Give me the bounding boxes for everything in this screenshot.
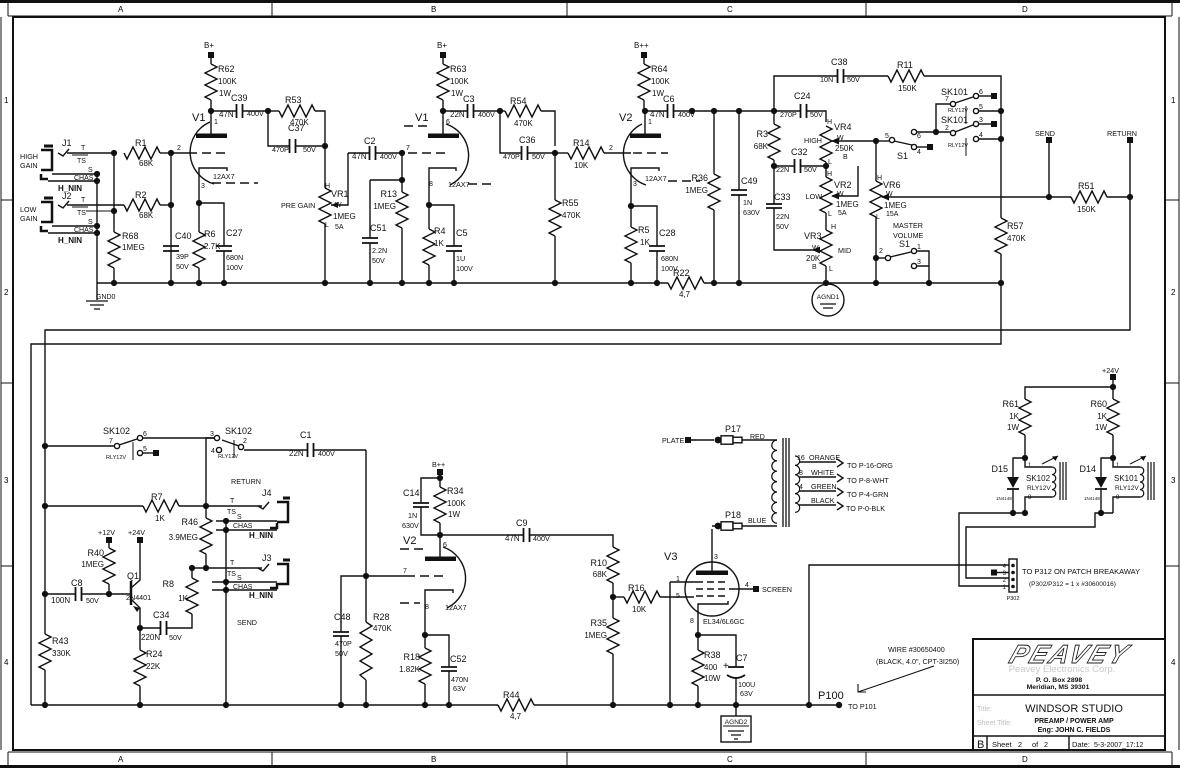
svg-text:68K: 68K <box>139 211 154 220</box>
node R61/D15/coil <box>1022 455 1028 461</box>
svg-text:4,7: 4,7 <box>510 712 522 721</box>
svg-text:50V: 50V <box>372 256 385 265</box>
wire rail x171 <box>170 153 172 283</box>
svg-text:S: S <box>237 575 242 582</box>
node V1a plate junction <box>208 108 214 114</box>
svg-text:+24V: +24V <box>128 528 145 537</box>
resistor R4 <box>423 205 446 283</box>
svg-text:100K: 100K <box>450 77 469 86</box>
node C3/R54 <box>497 108 503 114</box>
svg-text:H: H <box>827 119 832 126</box>
svg-text:100K: 100K <box>651 77 670 86</box>
capacitor C24 <box>774 91 826 122</box>
resistor R36 <box>685 111 720 283</box>
svg-text:GAIN: GAIN <box>20 161 38 170</box>
node R13/C51 <box>399 177 405 183</box>
svg-text:R34: R34 <box>447 486 464 496</box>
svg-text:1N4148: 1N4148 <box>1084 496 1100 501</box>
resistor R51 <box>1049 181 1130 214</box>
svg-text:T: T <box>81 197 86 204</box>
resistor R11 <box>888 60 1001 111</box>
svg-text:1MEG: 1MEG <box>122 243 145 252</box>
svg-text:R13: R13 <box>380 189 397 199</box>
svg-text:TO P101: TO P101 <box>848 702 877 711</box>
svg-text:68K: 68K <box>754 142 769 151</box>
node J2 chassis <box>94 230 100 236</box>
svg-text:47N: 47N <box>650 110 665 119</box>
svg-text:2: 2 <box>879 248 883 255</box>
resistor R13 <box>373 180 408 283</box>
wire C1 to V2b grid <box>365 450 367 576</box>
svg-text:1MEG: 1MEG <box>373 202 396 211</box>
svg-text:1MEG: 1MEG <box>685 186 708 195</box>
svg-text:VR1: VR1 <box>331 189 349 199</box>
svg-text:VR2: VR2 <box>834 180 852 190</box>
svg-text:5A: 5A <box>335 224 344 231</box>
node C39/R53 <box>265 108 271 114</box>
svg-text:50V: 50V <box>176 262 189 271</box>
svg-text:CHAS: CHAS <box>233 523 253 530</box>
svg-text:RLY12V: RLY12V <box>1027 485 1051 492</box>
svg-text:J3: J3 <box>262 553 272 563</box>
svg-text:1W: 1W <box>451 89 463 98</box>
svg-text:400: 400 <box>704 663 718 672</box>
svg-text:L: L <box>876 214 880 221</box>
svg-text:50V: 50V <box>169 633 182 642</box>
svg-text:BLACK: BLACK <box>811 496 835 505</box>
svg-text:1U: 1U <box>456 254 465 263</box>
SEND terminal <box>1035 129 1055 197</box>
svg-text:WHITE: WHITE <box>811 468 834 477</box>
svg-text:4: 4 <box>917 149 921 156</box>
svg-text:470P: 470P <box>335 639 352 648</box>
svg-text:VR4: VR4 <box>834 122 852 132</box>
svg-text:680N: 680N <box>661 254 678 263</box>
P100 terminal <box>818 690 877 711</box>
svg-text:1W: 1W <box>448 510 460 519</box>
wire <box>211 110 236 112</box>
svg-text:3: 3 <box>201 183 205 190</box>
svg-text:C27: C27 <box>226 228 243 238</box>
svg-text:B+: B+ <box>437 41 447 50</box>
svg-text:1MEG: 1MEG <box>81 560 104 569</box>
svg-text:1K: 1K <box>1097 412 1107 421</box>
capacitor C36 <box>500 111 555 161</box>
svg-text:63V: 63V <box>453 684 466 693</box>
resistor R14 <box>555 138 631 170</box>
svg-text:1N4148: 1N4148 <box>996 496 1012 501</box>
wire grid down <box>401 153 403 180</box>
node C49 top <box>736 108 742 114</box>
tap 8 WHITE <box>799 468 889 485</box>
svg-text:J1: J1 <box>62 138 72 148</box>
node J2 sleeve <box>94 223 100 229</box>
resistor R68 <box>108 231 145 283</box>
capacitor C8 <box>45 578 131 605</box>
capacitor C1 <box>244 430 366 458</box>
jack J2 <box>20 191 124 245</box>
svg-text:470P: 470P <box>272 145 289 154</box>
svg-text:Date:: Date: <box>1072 740 1090 749</box>
svg-text:3: 3 <box>4 476 9 485</box>
wire grid <box>366 575 406 577</box>
svg-text:C5: C5 <box>456 228 468 238</box>
svg-text:C1: C1 <box>300 430 312 440</box>
svg-text:+12V: +12V <box>98 528 115 537</box>
resistor R3 <box>754 111 780 166</box>
svg-text:D15: D15 <box>991 464 1008 474</box>
resistor R2 <box>124 190 171 220</box>
node V3 cathode <box>695 632 701 638</box>
svg-text:1K: 1K <box>434 239 444 248</box>
svg-text:22N: 22N <box>776 212 789 221</box>
svg-text:5-3-2007_17:12: 5-3-2007_17:12 <box>1094 742 1144 749</box>
svg-text:50V: 50V <box>303 145 316 154</box>
svg-text:630V: 630V <box>402 521 419 530</box>
resistor R34 <box>434 478 466 535</box>
svg-text:R1: R1 <box>135 138 147 148</box>
svg-text:2: 2 <box>945 125 949 132</box>
svg-text:4: 4 <box>211 448 215 455</box>
border top bar <box>0 2 1180 17</box>
svg-text:R43: R43 <box>52 636 69 646</box>
svg-text:2: 2 <box>1171 288 1176 297</box>
svg-text:400V: 400V <box>318 449 335 458</box>
svg-text:3: 3 <box>979 117 983 124</box>
resistor R60 <box>1090 387 1119 458</box>
+12V supply marker <box>98 528 115 548</box>
svg-text:C48: C48 <box>334 612 351 622</box>
svg-text:63V: 63V <box>740 689 753 698</box>
transformer T1 core <box>783 438 789 527</box>
capacitor C49 <box>731 111 760 283</box>
svg-text:50V: 50V <box>86 596 99 605</box>
svg-text:H_NIN: H_NIN <box>249 591 273 600</box>
svg-text:400V: 400V <box>478 110 495 119</box>
svg-text:B: B <box>812 264 817 271</box>
svg-text:Meridian, MS 39301: Meridian, MS 39301 <box>1027 684 1090 691</box>
svg-text:RLY12V: RLY12V <box>218 454 238 460</box>
node C37/VR1 <box>322 143 328 149</box>
svg-text:100U: 100U <box>738 680 755 689</box>
svg-text:R5: R5 <box>638 225 650 235</box>
svg-text:TO P-0-BLK: TO P-0-BLK <box>846 504 885 513</box>
svg-text:D14: D14 <box>1079 464 1096 474</box>
node J3 sleeve <box>223 579 229 585</box>
svg-text:C39: C39 <box>231 93 248 103</box>
svg-text:6: 6 <box>979 89 983 96</box>
resistor R40 <box>81 548 115 594</box>
plug P18 <box>712 510 777 530</box>
svg-text:(P302/P312 = 1 x #30600016): (P302/P312 = 1 x #30600016) <box>1029 581 1116 588</box>
svg-text:270P: 270P <box>780 110 797 119</box>
capacitor C28 <box>631 206 678 283</box>
svg-text:SK101: SK101 <box>1114 474 1139 483</box>
svg-text:2: 2 <box>609 145 613 152</box>
node C6 out <box>689 108 695 114</box>
svg-text:22N: 22N <box>289 449 304 458</box>
svg-text:T: T <box>230 560 235 567</box>
svg-text:R14: R14 <box>573 138 590 148</box>
svg-text:AGND2: AGND2 <box>725 719 748 726</box>
svg-text:Eng: JOHN C. FIELDS: Eng: JOHN C. FIELDS <box>1038 727 1111 734</box>
svg-text:TS: TS <box>77 158 86 165</box>
node C36/R14/R55 <box>552 150 558 156</box>
svg-text:TO P-8-WHT: TO P-8-WHT <box>847 476 889 485</box>
jack J4 <box>206 488 290 540</box>
svg-text:RETURN: RETURN <box>231 477 261 486</box>
svg-text:7: 7 <box>109 438 113 445</box>
node C2/V1b grid <box>399 150 405 156</box>
svg-text:PLATE: PLATE <box>662 436 684 445</box>
svg-text:39P: 39P <box>176 252 189 261</box>
svg-text:C51: C51 <box>370 223 387 233</box>
node R2 right <box>168 202 174 208</box>
node C32 left <box>771 163 777 169</box>
svg-text:5A: 5A <box>838 210 847 217</box>
svg-text:5: 5 <box>143 446 147 453</box>
relay coil SK101 <box>1113 456 1154 513</box>
wire V3 pin1 to ground <box>669 582 671 705</box>
svg-text:470K: 470K <box>514 119 533 128</box>
svg-text:R53: R53 <box>285 95 302 105</box>
svg-text:2: 2 <box>1003 578 1007 584</box>
svg-text:V2: V2 <box>619 112 632 124</box>
svg-text:RLY12V: RLY12V <box>948 143 968 149</box>
node R36 top <box>711 108 717 114</box>
svg-text:TO P-4-GRN: TO P-4-GRN <box>847 490 888 499</box>
capacitor C40 <box>163 231 192 271</box>
triode U V2b <box>400 535 467 635</box>
svg-text:R4: R4 <box>434 226 446 236</box>
svg-text:TS: TS <box>227 509 236 516</box>
resistor R62 <box>205 64 237 111</box>
svg-text:4: 4 <box>979 132 983 139</box>
node J3 chassis <box>223 587 229 593</box>
svg-text:2: 2 <box>1044 740 1048 749</box>
svg-text:R46: R46 <box>181 517 198 527</box>
svg-text:1: 1 <box>214 119 218 126</box>
node R57 bus <box>998 280 1004 286</box>
svg-text:R64: R64 <box>651 64 668 74</box>
node V2b plate <box>437 532 443 538</box>
wire coil to P302 pin2 <box>966 513 1113 578</box>
svg-text:20K: 20K <box>806 254 821 263</box>
svg-text:1MEG: 1MEG <box>584 631 607 640</box>
svg-text:C9: C9 <box>516 518 528 528</box>
connector P302 <box>991 559 1140 602</box>
wire ground feed to lower section <box>31 283 1001 705</box>
svg-text:C8: C8 <box>71 578 83 588</box>
svg-text:50V: 50V <box>776 222 789 231</box>
svg-text:ORANGE: ORANGE <box>809 453 840 462</box>
wire coil to P302 pin1 <box>959 513 1025 586</box>
svg-text:P100: P100 <box>818 690 844 702</box>
node R10/R16/R35 <box>610 594 616 600</box>
svg-text:400V: 400V <box>380 152 397 161</box>
border right edge <box>1165 17 1179 750</box>
svg-text:150K: 150K <box>898 84 917 93</box>
svg-text:7: 7 <box>406 145 410 152</box>
node relay feed <box>933 129 939 135</box>
svg-text:R68: R68 <box>122 231 139 241</box>
svg-text:PREAMP / POWER AMP: PREAMP / POWER AMP <box>1034 718 1114 725</box>
svg-text:Sheet: Sheet <box>992 740 1013 749</box>
resistor R61 <box>1002 399 1031 458</box>
svg-text:8: 8 <box>799 470 803 477</box>
svg-text:TO P312 ON PATCH BREAKAWAY: TO P312 ON PATCH BREAKAWAY <box>1022 567 1140 576</box>
svg-text:1N: 1N <box>743 198 752 207</box>
svg-text:1: 1 <box>917 244 921 251</box>
node R60/D14/coil <box>1110 455 1116 461</box>
svg-text:S: S <box>88 219 93 226</box>
wire S1a to relays <box>917 104 950 132</box>
node R40 base <box>106 591 112 597</box>
node V2a plate <box>642 108 648 114</box>
capacitor C5 <box>429 205 473 283</box>
svg-text:TO P-16-ORG: TO P-16-ORG <box>847 461 893 470</box>
svg-text:D: D <box>1022 755 1028 764</box>
svg-text:RLY12V: RLY12V <box>948 108 968 114</box>
svg-text:R24: R24 <box>146 649 163 659</box>
plug P17 <box>715 424 777 444</box>
svg-text:4: 4 <box>745 582 749 589</box>
svg-text:68K: 68K <box>139 159 154 168</box>
svg-text:400V: 400V <box>533 534 550 543</box>
svg-text:250K: 250K <box>835 144 854 153</box>
svg-text:R61: R61 <box>1002 399 1019 409</box>
svg-text:R35: R35 <box>590 618 607 628</box>
node tone stack input <box>771 108 777 114</box>
svg-text:B+: B+ <box>204 41 214 50</box>
svg-text:1N: 1N <box>408 511 417 520</box>
svg-text:V3: V3 <box>664 551 677 563</box>
relay switch SK102a <box>45 426 159 461</box>
svg-text:R11: R11 <box>897 60 913 70</box>
svg-text:Q1: Q1 <box>127 571 139 581</box>
svg-text:8: 8 <box>425 604 429 611</box>
svg-text:50V: 50V <box>532 152 545 161</box>
node bus junctions lower <box>338 702 344 708</box>
svg-text:1K: 1K <box>640 238 650 247</box>
svg-text:3: 3 <box>917 259 921 266</box>
resistor R22 <box>668 268 704 299</box>
svg-text:GAIN: GAIN <box>20 214 38 223</box>
svg-text:R3: R3 <box>756 129 768 139</box>
svg-text:1MEG: 1MEG <box>884 201 907 210</box>
svg-text:J2: J2 <box>62 191 72 201</box>
svg-text:5: 5 <box>979 104 983 111</box>
svg-text:C49: C49 <box>741 176 758 186</box>
svg-text:EL34/6L6GC: EL34/6L6GC <box>703 617 745 626</box>
svg-text:R28: R28 <box>373 612 390 622</box>
svg-text:V1: V1 <box>415 112 428 124</box>
svg-text:C: C <box>727 5 733 14</box>
svg-text:470K: 470K <box>373 624 392 633</box>
svg-text:SK101: SK101 <box>941 115 968 125</box>
svg-text:R44: R44 <box>503 690 520 700</box>
svg-text:R18: R18 <box>403 652 420 662</box>
title block frame <box>973 639 1165 750</box>
svg-text:R6: R6 <box>204 229 216 239</box>
wire note arrow <box>858 645 959 692</box>
svg-text:L: L <box>828 211 832 218</box>
resistor R7 <box>45 492 206 523</box>
svg-text:B: B <box>843 154 848 161</box>
svg-text:1K: 1K <box>178 594 188 603</box>
potentiometer VR1 <box>281 146 356 283</box>
svg-text:C: C <box>727 755 733 764</box>
ground bus top section <box>97 282 1001 284</box>
wire SK102a to SK102b <box>143 437 214 439</box>
svg-text:R22: R22 <box>673 268 690 278</box>
svg-text:C33: C33 <box>774 192 791 202</box>
capacitor C2 <box>348 136 402 161</box>
wire cathode to C27 <box>199 203 224 246</box>
node R11/relay rail top <box>998 108 1004 114</box>
svg-text:6: 6 <box>917 133 921 140</box>
wire return to lower section <box>45 197 1130 446</box>
svg-text:TS: TS <box>227 571 236 578</box>
svg-text:SCREEN: SCREEN <box>762 585 792 594</box>
border bottom bar <box>0 752 1180 767</box>
node V2a cathode <box>628 203 634 209</box>
resistor R1 <box>124 138 171 168</box>
triode U V1b <box>404 111 495 205</box>
node RETURN/R51 <box>1127 194 1133 200</box>
switch S1a <box>876 129 933 161</box>
PLATE terminal <box>662 436 714 445</box>
svg-text:1K: 1K <box>1009 412 1019 421</box>
svg-text:680N: 680N <box>226 253 243 262</box>
node J4 chassis <box>223 527 229 533</box>
svg-text:SK102: SK102 <box>103 426 130 436</box>
resistor R8 <box>162 568 198 628</box>
svg-text:C28: C28 <box>659 228 676 238</box>
svg-text:C3: C3 <box>463 94 475 104</box>
svg-text:B: B <box>977 739 984 751</box>
svg-text:220N: 220N <box>141 633 160 642</box>
svg-text:100N: 100N <box>51 596 70 605</box>
svg-text:50V: 50V <box>804 165 817 174</box>
svg-text:MASTER: MASTER <box>893 221 923 230</box>
svg-text:R62: R62 <box>218 64 235 74</box>
svg-text:B++: B++ <box>634 41 649 50</box>
svg-text:C6: C6 <box>663 94 675 104</box>
resistor R44 <box>498 690 534 721</box>
border left edge <box>1 17 13 750</box>
svg-text:12AX7: 12AX7 <box>213 172 235 181</box>
svg-text:2: 2 <box>177 145 181 152</box>
capacitor C34 <box>140 610 182 642</box>
svg-text:P18: P18 <box>725 510 741 520</box>
resistor R38 <box>692 635 721 705</box>
resistor R16 <box>613 583 694 614</box>
svg-text:HIGH: HIGH <box>20 152 38 161</box>
svg-text:LOW: LOW <box>20 205 37 214</box>
svg-text:GREEN: GREEN <box>811 482 837 491</box>
svg-text:47N: 47N <box>219 110 234 119</box>
svg-text:GND0: GND0 <box>96 294 116 301</box>
svg-text:SEND: SEND <box>237 618 257 627</box>
node J2 TS <box>111 208 117 214</box>
ground AGND1 <box>812 284 844 316</box>
svg-text:AGND1: AGND1 <box>817 294 840 301</box>
node D15/coil cathode <box>1010 510 1016 516</box>
capacitor C6 <box>645 94 695 119</box>
wire SEND rail x226 <box>225 521 227 705</box>
svg-text:12AX7: 12AX7 <box>645 174 667 183</box>
